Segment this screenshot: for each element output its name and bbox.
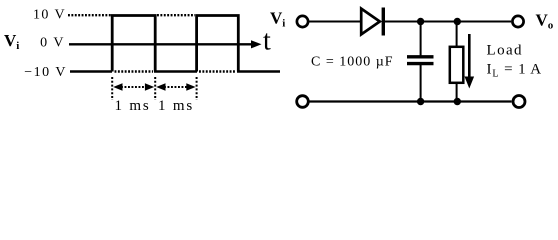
dotted +10V reference line segment 2 — [157, 14, 195, 16]
label 10 V — [33, 8, 66, 23]
label -10 V — [24, 65, 67, 80]
svg-text:Vo: Vo — [536, 11, 554, 32]
value label IL = 1 A — [487, 62, 543, 80]
input terminal top-left — [297, 16, 308, 27]
label 0 V — [40, 36, 65, 51]
wire diode to output — [385, 21, 511, 23]
junction top load node — [454, 18, 461, 25]
output terminal top-right — [512, 16, 523, 27]
svg-text:10 V: 10 V — [33, 8, 66, 23]
node Vi waveform label — [4, 31, 19, 52]
ground terminal bottom-right — [513, 96, 525, 108]
svg-text:Vi: Vi — [4, 31, 19, 52]
wire capacitor bottom lead — [420, 65, 422, 102]
current arrow IL — [465, 34, 475, 89]
dimension extension line 2 — [154, 77, 156, 100]
svg-text:0 V: 0 V — [40, 36, 65, 51]
junction bottom capacitor node — [417, 98, 424, 105]
ground terminal bottom-left — [297, 96, 309, 108]
capacitor C1 — [407, 57, 434, 64]
wire -10V solid segment 3 — [237, 70, 280, 73]
load box RL — [450, 47, 464, 83]
svg-text:−10 V: −10 V — [24, 65, 67, 80]
node Vo output label — [536, 11, 554, 32]
svg-text:t: t — [263, 26, 271, 57]
svg-text:Load: Load — [487, 43, 523, 59]
label Load — [487, 43, 523, 59]
label 1 ms second — [158, 98, 194, 114]
label t axis — [263, 26, 271, 57]
junction top capacitor node — [417, 18, 424, 25]
svg-text:IL = 1 A: IL = 1 A — [487, 62, 543, 80]
dimension extension line 1 — [111, 77, 113, 100]
wire load bottom lead — [456, 83, 458, 102]
wire input to diode — [309, 21, 360, 23]
square wave pulse 1 — [112, 16, 155, 72]
node Vi input label — [270, 9, 285, 30]
junction bottom load node — [454, 98, 461, 105]
wire -10V solid segment 1 — [70, 70, 112, 73]
wire -10V solid segment 2 — [154, 70, 197, 73]
dotted +10V reference line segment 1 — [68, 14, 111, 16]
svg-text:1 ms: 1 ms — [158, 98, 194, 114]
value label C = 1000 uF — [311, 55, 394, 70]
svg-text:1 ms: 1 ms — [115, 98, 151, 114]
dotted -10V segment under pulse 1 — [115, 70, 154, 72]
svg-text:Vi: Vi — [270, 9, 285, 30]
dimension arrow 1 ms second span — [156, 83, 195, 90]
square wave pulse 2 — [197, 16, 239, 72]
wire load top lead — [456, 22, 458, 48]
wire bottom rail — [309, 100, 512, 102]
svg-text:C = 1000 µF: C = 1000 µF — [311, 55, 394, 70]
time axis 0V line — [69, 40, 262, 48]
label 1 ms first — [115, 98, 151, 114]
dimension arrow 1 ms first span — [113, 83, 154, 90]
dimension extension line 3 — [196, 77, 198, 100]
diode D1 — [361, 8, 383, 36]
wire capacitor top lead — [420, 22, 422, 56]
dotted -10V segment under pulse 2 — [199, 70, 236, 72]
